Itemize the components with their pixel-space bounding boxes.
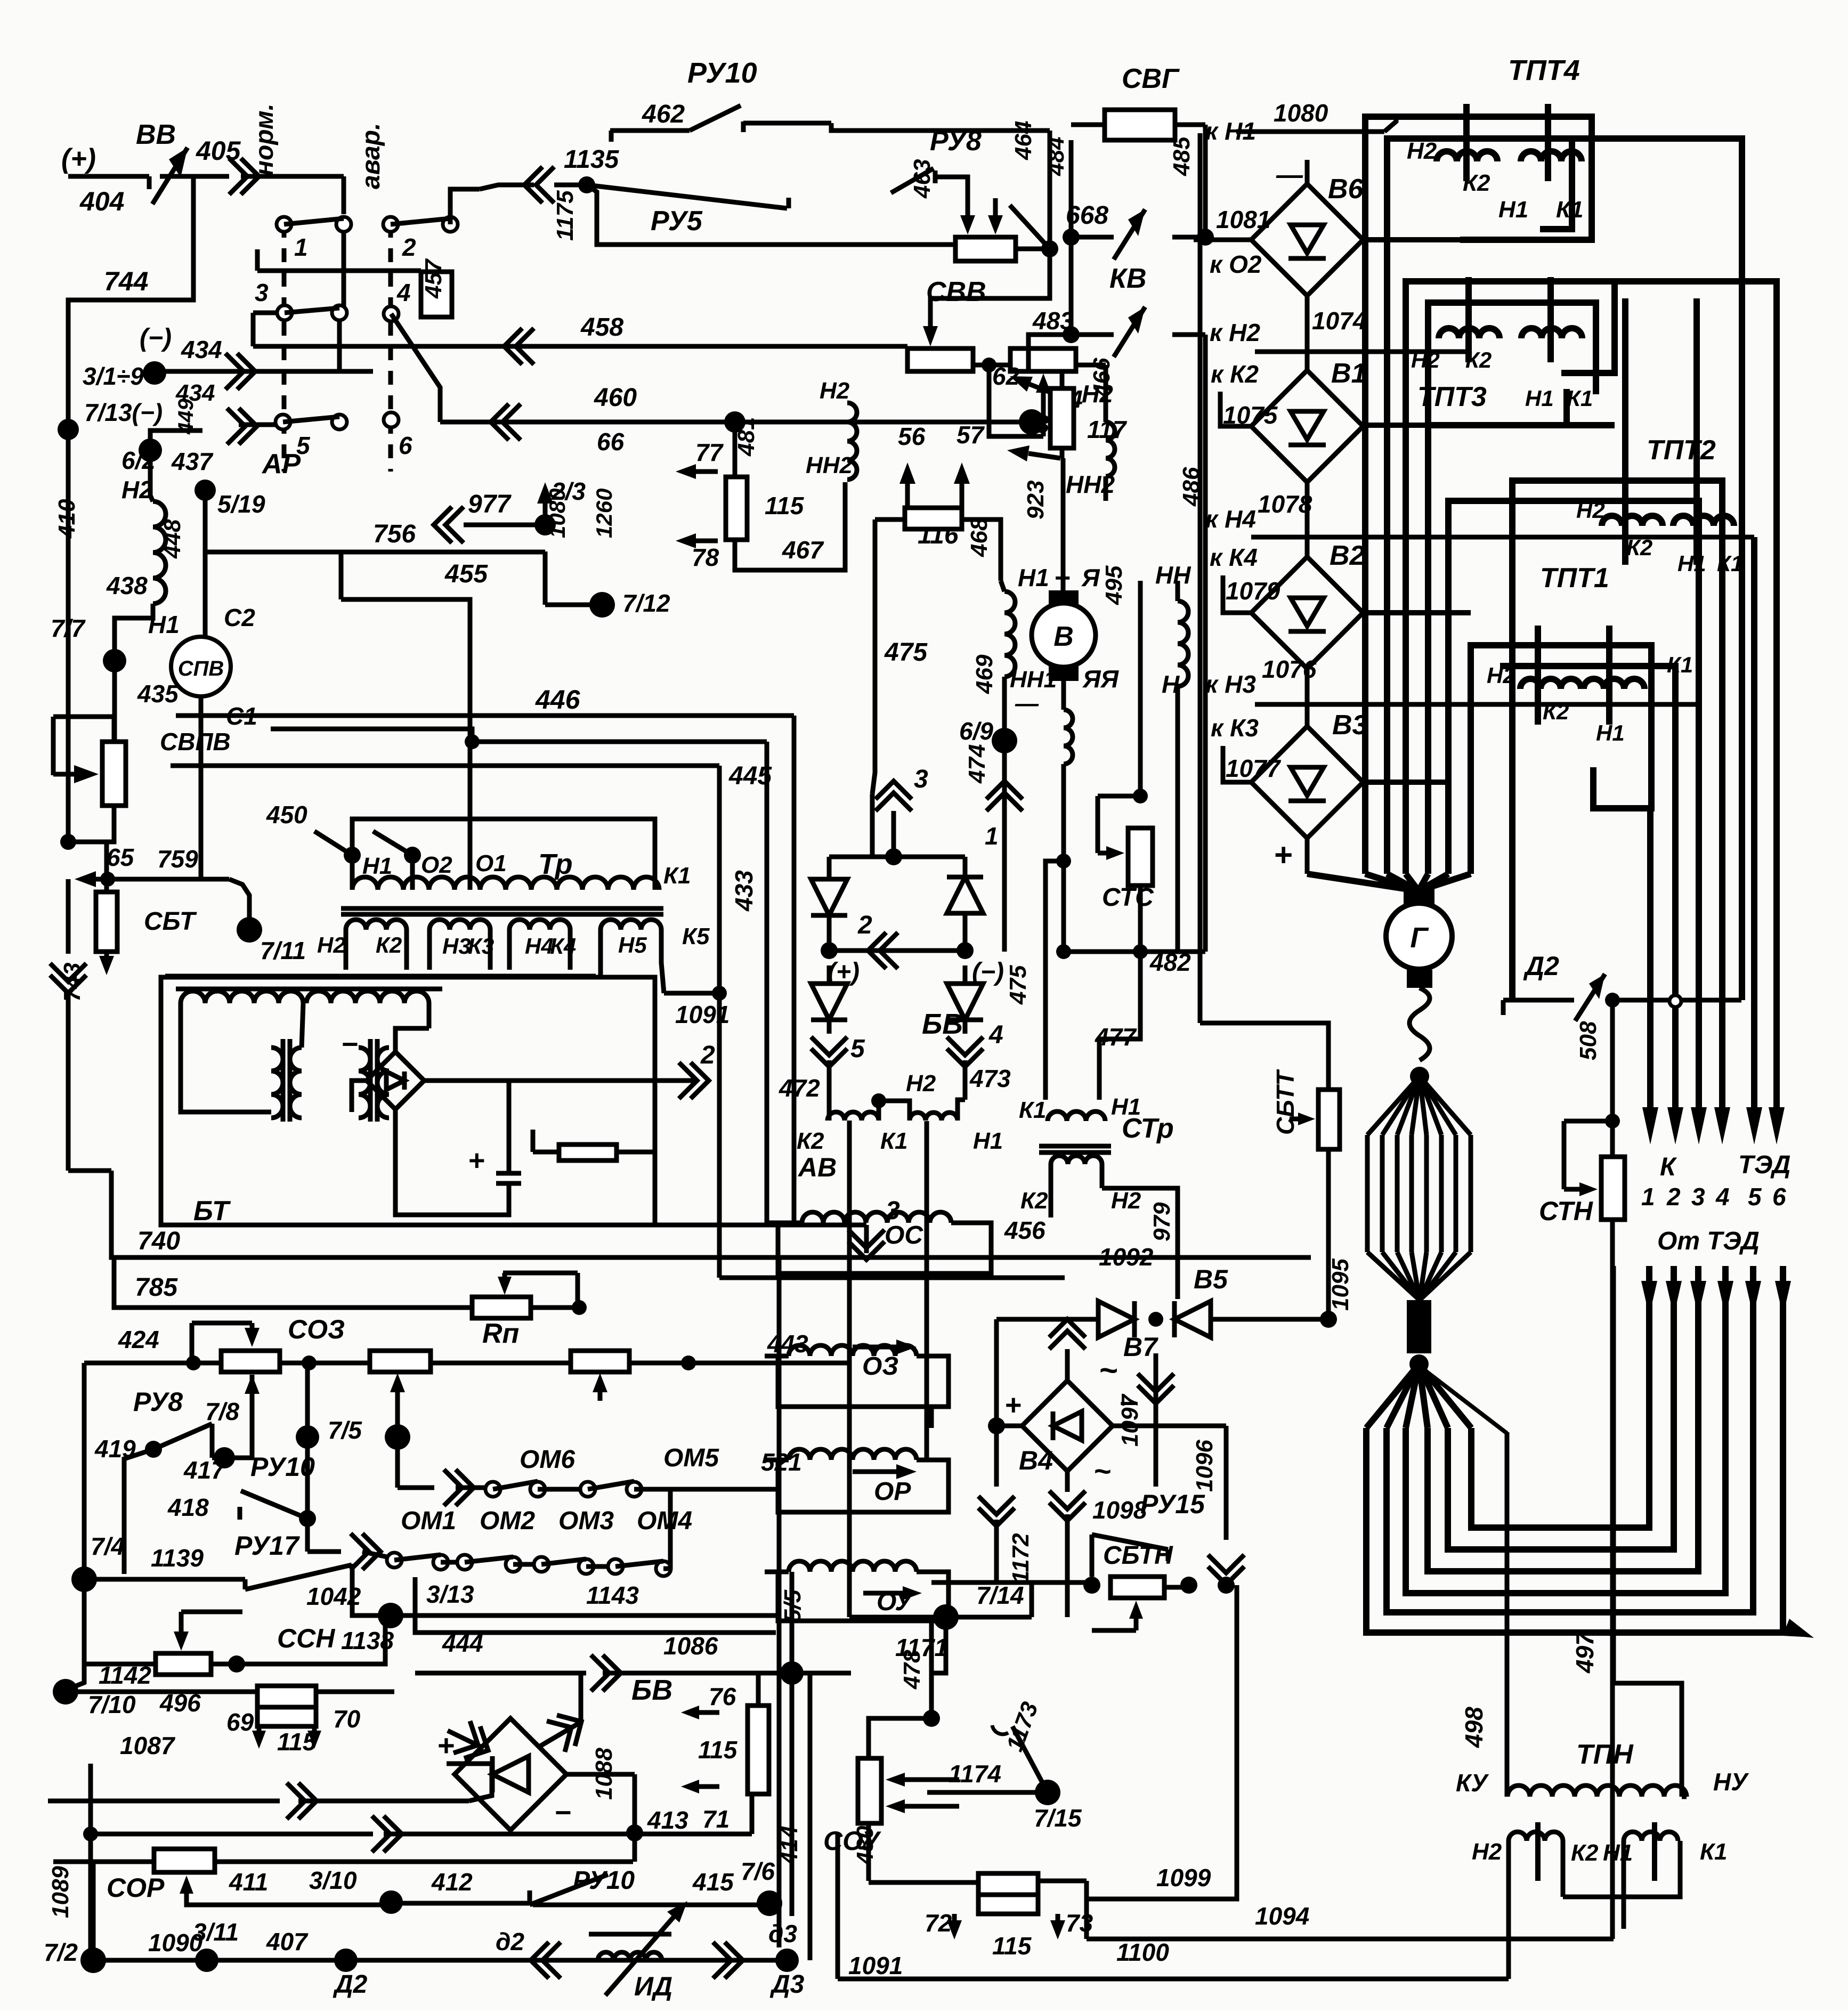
- svg-text:7/5: 7/5: [328, 1416, 362, 1444]
- svg-text:460: 460: [594, 384, 637, 412]
- svg-text:1096: 1096: [1192, 1440, 1218, 1492]
- resistor 117: [1050, 388, 1074, 448]
- svg-text:Я: Я: [1081, 564, 1100, 591]
- svg-text:498: 498: [1460, 1707, 1488, 1748]
- resistor 457: [421, 272, 452, 317]
- generator G terminal top: [1404, 889, 1434, 908]
- svg-text:Н2: Н2: [1411, 347, 1440, 372]
- svg-text:2: 2: [700, 1041, 715, 1069]
- svg-text:744: 744: [104, 266, 148, 296]
- svg-text:норм.: норм.: [250, 103, 279, 176]
- svg-text:2: 2: [857, 911, 872, 939]
- svg-text:К2: К2: [1463, 170, 1490, 196]
- TPT2 taps: [1622, 298, 1628, 565]
- svg-text:Н4: Н4: [525, 934, 554, 959]
- TPN secondary wiring: [1561, 1841, 1566, 1897]
- svg-text:КВ: КВ: [1109, 263, 1147, 294]
- svg-text:69: 69: [226, 1708, 254, 1736]
- svg-text:ТЭД: ТЭД: [1738, 1151, 1790, 1179]
- node 7/4: [71, 1566, 97, 1592]
- svg-text:1: 1: [985, 822, 999, 850]
- svg-text:ОМ1: ОМ1: [401, 1507, 456, 1535]
- svg-text:К2: К2: [1020, 1188, 1048, 1214]
- svg-text:474: 474: [964, 744, 990, 784]
- TPT4 coils: [1437, 151, 1497, 161]
- svg-text:473: 473: [969, 1065, 1011, 1092]
- svg-text:462: 462: [642, 100, 685, 128]
- svg-text:ССН: ССН: [277, 1624, 335, 1653]
- wire 668 to 458 resistor: [930, 249, 1050, 320]
- BT transformer 2 core: [368, 1039, 373, 1122]
- svg-text:От ТЭД: От ТЭД: [1657, 1227, 1760, 1255]
- svg-text:417: 417: [183, 1456, 226, 1484]
- svg-text:484: 484: [1043, 137, 1069, 176]
- svg-text:К1: К1: [1019, 1097, 1047, 1123]
- svg-text:к Н4: к Н4: [1205, 505, 1256, 533]
- svg-text:ОМ3: ОМ3: [558, 1507, 614, 1535]
- svg-text:3/10: 3/10: [309, 1866, 357, 1894]
- svg-text:472: 472: [779, 1074, 820, 1102]
- svg-text:ОЗ: ОЗ: [862, 1352, 898, 1381]
- svg-text:+: +: [1054, 563, 1070, 594]
- svg-text:418: 418: [167, 1493, 209, 1521]
- svg-text:к Н2: к Н2: [1210, 319, 1260, 346]
- svg-text:К1: К1: [880, 1128, 908, 1154]
- svg-text:БТ: БТ: [193, 1196, 231, 1227]
- svg-text:~: ~: [1099, 1352, 1117, 1388]
- svg-text:Н1: Н1: [1498, 197, 1528, 223]
- svg-text:К1: К1: [1700, 1839, 1728, 1865]
- svg-text:ОМ6: ОМ6: [520, 1446, 575, 1474]
- svg-text:53: 53: [1022, 410, 1050, 438]
- BV right chain diode: [963, 857, 968, 877]
- wire 743 chevron down: [50, 975, 86, 993]
- svg-text:1086: 1086: [663, 1632, 718, 1660]
- svg-text:4: 4: [988, 1021, 1003, 1049]
- svg-text:4: 4: [1715, 1183, 1730, 1211]
- svg-text:Н1: Н1: [1603, 1840, 1633, 1866]
- svg-text:7/4: 7/4: [91, 1532, 125, 1560]
- svg-text:к К2: к К2: [1211, 360, 1259, 388]
- svg-text:3: 3: [255, 279, 269, 306]
- svg-text:к О2: к О2: [1210, 250, 1262, 278]
- svg-text:6: 6: [399, 432, 412, 459]
- svg-text:412: 412: [431, 1868, 473, 1896]
- resistor 458-row 1: [907, 348, 973, 371]
- svg-text:7/15: 7/15: [1034, 1804, 1082, 1832]
- node 7/10 496: [53, 1679, 78, 1704]
- svg-text:7/6: 7/6: [741, 1857, 775, 1885]
- wire contact1 to contact3: [342, 232, 346, 313]
- switch AP normal column (dashed): [282, 224, 287, 472]
- svg-text:979: 979: [1149, 1202, 1175, 1241]
- svg-text:ОМ4: ОМ4: [637, 1507, 692, 1535]
- wire 457: [255, 249, 260, 271]
- svg-text:433: 433: [730, 870, 758, 912]
- svg-text:3: 3: [1691, 1183, 1705, 1211]
- svg-text:−: −: [341, 1028, 358, 1060]
- svg-text:К5: К5: [682, 923, 710, 949]
- svg-text:475: 475: [1005, 965, 1031, 1005]
- svg-text:СТН: СТН: [1539, 1196, 1593, 1226]
- node 7/5: [296, 1425, 319, 1449]
- svg-text:К2: К2: [376, 932, 402, 957]
- BT resistor: [559, 1145, 617, 1160]
- svg-text:1099: 1099: [1156, 1864, 1211, 1892]
- svg-text:К2: К2: [1626, 535, 1652, 560]
- svg-text:1074: 1074: [1312, 307, 1366, 335]
- svg-text:438: 438: [106, 572, 148, 599]
- svg-text:СОЗ: СОЗ: [288, 1314, 345, 1344]
- BT transformer 1 core: [281, 1039, 286, 1122]
- svg-text:НУ: НУ: [1713, 1768, 1749, 1796]
- wire from KV down: [1028, 335, 1071, 373]
- svg-text:1092: 1092: [1099, 1243, 1154, 1271]
- node 6/9: [992, 728, 1017, 753]
- resistor 115 77 78: [726, 477, 747, 540]
- BT capacitor: [496, 1171, 521, 1176]
- svg-text:Н5: Н5: [618, 932, 647, 957]
- wire 1135 to PY5: [480, 185, 534, 189]
- svg-text:АВ: АВ: [797, 1152, 837, 1182]
- TPT3 coils: [1439, 328, 1500, 338]
- svg-text:977: 977: [468, 490, 512, 518]
- Tr core: [341, 906, 663, 911]
- svg-text:—: —: [1015, 691, 1039, 717]
- svg-text:756: 756: [373, 520, 416, 548]
- svg-text:458: 458: [580, 313, 623, 342]
- svg-text:450: 450: [266, 801, 307, 829]
- wire to contact 1: [342, 176, 346, 214]
- wire 1092 horizontal: [719, 1276, 1065, 1280]
- bridge column 3: [1305, 669, 1310, 726]
- svg-text:435: 435: [137, 680, 179, 708]
- contact 6: [384, 412, 399, 427]
- wire 3 chevron down out of BT: [655, 1223, 866, 1228]
- svg-text:1087: 1087: [120, 1732, 176, 1759]
- svg-text:Н2: Н2: [1082, 380, 1113, 408]
- svg-text:К1: К1: [1717, 551, 1743, 576]
- svg-text:д2: д2: [496, 1928, 524, 1955]
- svg-text:Н1: Н1: [973, 1128, 1003, 1154]
- svg-text:7/2: 7/2: [44, 1938, 78, 1966]
- node 7/12: [589, 592, 615, 618]
- svg-text:Г: Г: [1410, 922, 1429, 954]
- BV left chain diode: [827, 857, 832, 879]
- svg-text:475: 475: [884, 638, 928, 667]
- U-loop group (generator to TED): [1366, 1364, 1419, 1428]
- svg-text:ИД: ИД: [634, 1971, 672, 2001]
- machine SPV circle: [171, 637, 231, 696]
- contact 4 blade to 460 wire: [391, 314, 440, 422]
- svg-text:480: 480: [852, 1825, 878, 1865]
- BT transformer 2 coils: [359, 1048, 370, 1118]
- svg-text:+: +: [1004, 1389, 1022, 1421]
- TPT1 coils: [1520, 679, 1581, 689]
- bottom bus 7/2 1090 407: [80, 1947, 106, 1973]
- svg-text:РУ5: РУ5: [651, 206, 703, 237]
- svg-text:ВВ: ВВ: [136, 119, 176, 150]
- wire 2 chevron out of BT: [424, 1078, 698, 1083]
- svg-text:73: 73: [1066, 1909, 1093, 1937]
- svg-text:+: +: [1274, 837, 1292, 873]
- wire 1080/1260 verticals: [543, 551, 548, 605]
- svg-text:к К3: к К3: [1211, 714, 1259, 742]
- svg-text:115: 115: [698, 1736, 738, 1764]
- svg-text:К2: К2: [797, 1128, 824, 1154]
- svg-text:ОМ5: ОМ5: [663, 1444, 719, 1472]
- svg-text:Н3: Н3: [442, 934, 471, 959]
- svg-text:д3: д3: [768, 1920, 797, 1947]
- TPT4 taps: [1463, 104, 1470, 181]
- svg-text:3/13: 3/13: [426, 1580, 474, 1608]
- svg-text:1080: 1080: [545, 489, 570, 538]
- resistor SOZ 1: [221, 1351, 280, 1372]
- mid vertical buses through windings: [847, 1121, 852, 1617]
- node 7/7: [103, 649, 126, 672]
- svg-text:НН1: НН1: [1010, 667, 1057, 693]
- svg-text:6/9: 6/9: [959, 717, 993, 745]
- svg-text:404: 404: [79, 186, 124, 216]
- svg-text:К2: К2: [1465, 347, 1492, 372]
- svg-text:ОР: ОР: [874, 1478, 911, 1506]
- resistor 69-115-70: [257, 1686, 316, 1707]
- machine V circle: [1049, 590, 1079, 606]
- wire 458: [251, 313, 256, 346]
- svg-text:468: 468: [966, 517, 992, 557]
- bottom mid horizontal 2970: [931, 1580, 1092, 1585]
- svg-text:Н2: Н2: [906, 1070, 936, 1097]
- resistor SOZ 2: [280, 1361, 370, 1366]
- wire 435 from 7/7 down: [112, 661, 117, 742]
- svg-text:743: 743: [59, 963, 85, 1002]
- svg-text:1081: 1081: [1216, 206, 1270, 233]
- contact 2: [383, 217, 398, 232]
- wire 977 2/3 arrow: [434, 507, 452, 543]
- svg-text:Н2: Н2: [317, 932, 346, 957]
- svg-text:456: 456: [1004, 1216, 1045, 1244]
- svg-text:−: −: [554, 1797, 571, 1829]
- svg-text:БВ: БВ: [922, 1008, 963, 1040]
- svg-text:к Н3: к Н3: [1205, 670, 1256, 698]
- svg-text:2: 2: [402, 233, 416, 261]
- svg-text:485: 485: [1169, 136, 1195, 176]
- svg-text:785: 785: [135, 1273, 178, 1302]
- svg-text:70: 70: [333, 1705, 361, 1733]
- svg-text:+: +: [468, 1145, 485, 1176]
- svg-text:1171: 1171: [895, 1634, 948, 1661]
- svg-text:К1: К1: [1667, 652, 1693, 677]
- svg-text:1: 1: [1641, 1183, 1655, 1211]
- svg-text:О2: О2: [421, 852, 452, 878]
- bridge B4: [1022, 1381, 1113, 1471]
- svg-text:4: 4: [396, 279, 411, 306]
- inductor ID: [598, 1952, 662, 1960]
- BT bridge: [367, 1052, 424, 1109]
- svg-text:(−): (−): [140, 324, 172, 352]
- svg-text:СОР: СОР: [107, 1873, 165, 1903]
- resistor SVV: [955, 237, 1016, 261]
- svg-text:1094: 1094: [1255, 1902, 1309, 1930]
- node 5/4 to resistor 115 area: [724, 411, 745, 433]
- svg-text:С2: С2: [224, 604, 255, 631]
- svg-text:759: 759: [157, 845, 198, 873]
- TPT1 taps: [1535, 626, 1541, 725]
- bridge B6 top wire: [1305, 160, 1310, 184]
- BT transformer 2 primary: [306, 991, 429, 1003]
- svg-text:3: 3: [914, 765, 928, 793]
- second chevron wire: [91, 1832, 373, 1837]
- svg-text:1080: 1080: [1274, 99, 1328, 127]
- svg-text:434: 434: [181, 336, 222, 363]
- svg-text:446: 446: [535, 685, 581, 715]
- svg-text:СВПВ: СВПВ: [160, 728, 231, 756]
- resistor SOZ 3: [431, 1361, 571, 1366]
- BT transformer 1 primary: [181, 991, 303, 1003]
- svg-text:463: 463: [909, 159, 935, 199]
- svg-text:СБТТ: СБТТ: [1271, 1069, 1299, 1135]
- svg-text:В1: В1: [1331, 358, 1366, 389]
- secondary bottom bus: [165, 974, 596, 979]
- svg-text:414: 414: [776, 1826, 803, 1865]
- left vertical bus of bridge column: [1198, 133, 1203, 1023]
- cage bottom block: [1407, 1300, 1431, 1353]
- rheostat SVPV: [102, 742, 126, 806]
- arrows 56 57: [905, 484, 910, 506]
- svg-text:Д2: Д2: [1523, 951, 1559, 981]
- svg-text:Н1: Н1: [1525, 386, 1554, 411]
- svg-text:72: 72: [925, 1909, 952, 1937]
- svg-text:740: 740: [137, 1227, 180, 1255]
- svg-text:7/14: 7/14: [976, 1581, 1024, 1609]
- svg-text:464: 464: [1010, 121, 1036, 160]
- generator squiggle coil: [1409, 988, 1430, 1060]
- svg-text:К1: К1: [1556, 197, 1584, 223]
- BV left chain diode 2: [811, 984, 847, 1020]
- svg-text:495: 495: [1101, 565, 1127, 605]
- BT top bar: [176, 987, 442, 992]
- bottom right bus wires: [838, 1977, 1509, 1982]
- svg-text:СТр: СТр: [1122, 1113, 1174, 1144]
- svg-text:3/11: 3/11: [193, 1918, 239, 1946]
- svg-text:ЯЯ: ЯЯ: [1082, 665, 1120, 693]
- KV flag 2: [1071, 332, 1114, 337]
- svg-text:АР: АР: [261, 449, 301, 480]
- svg-text:923: 923: [1023, 481, 1049, 520]
- svg-text:ОМ2: ОМ2: [480, 1507, 535, 1535]
- switch AP avar column (dashed): [388, 224, 393, 472]
- svg-text:В4: В4: [1019, 1446, 1053, 1475]
- TPT3 taps: [1465, 277, 1472, 362]
- svg-text:467: 467: [782, 536, 824, 564]
- svg-text:СВГ: СВГ: [1122, 63, 1180, 94]
- svg-text:1: 1: [294, 233, 308, 261]
- node 7/14: [933, 1604, 959, 1630]
- svg-text:РУ8: РУ8: [930, 126, 982, 157]
- svg-text:Н2: Н2: [1487, 663, 1515, 688]
- svg-text:Н2: Н2: [1111, 1188, 1141, 1214]
- svg-text:К2: К2: [1571, 1840, 1599, 1866]
- svg-text:1135: 1135: [564, 145, 620, 174]
- svg-text:57: 57: [957, 421, 985, 449]
- contact 4: [384, 306, 399, 321]
- TPN taps: [1535, 1822, 1541, 1881]
- svg-text:407: 407: [266, 1928, 309, 1955]
- svg-text:5/19: 5/19: [217, 490, 265, 518]
- svg-text:К1: К1: [1567, 386, 1593, 411]
- svg-text:РУ10: РУ10: [573, 1866, 635, 1895]
- svg-text:3/1÷9: 3/1÷9: [83, 362, 144, 390]
- svg-text:7/8: 7/8: [205, 1398, 239, 1425]
- bundle left verticals from TPT down to funnel: [1362, 341, 1368, 874]
- svg-text:56: 56: [898, 423, 926, 450]
- svg-text:РУ10: РУ10: [687, 57, 757, 89]
- svg-text:115: 115: [992, 1932, 1032, 1960]
- wire 53 arrow 117: [1028, 453, 1060, 458]
- svg-text:1097: 1097: [1117, 1393, 1143, 1447]
- svg-text:Н2: Н2: [1472, 1839, 1502, 1865]
- svg-text:КУ: КУ: [1456, 1769, 1489, 1797]
- svg-text:—: —: [1276, 160, 1303, 190]
- svg-text:469: 469: [971, 654, 998, 694]
- svg-text:РУ8: РУ8: [133, 1387, 183, 1417]
- wire 3 chevron up: [876, 781, 912, 799]
- svg-text:К: К: [1660, 1153, 1677, 1181]
- svg-text:СБТН: СБТН: [1103, 1541, 1173, 1570]
- svg-text:411: 411: [229, 1868, 268, 1896]
- svg-text:Н2: Н2: [1576, 498, 1605, 523]
- svg-text:437: 437: [171, 448, 214, 475]
- svg-text:О1: О1: [475, 850, 507, 876]
- motor V lower coil: [1061, 681, 1066, 710]
- Tr transformer top box: [352, 819, 655, 890]
- funnel to cage: [1410, 1067, 1429, 1086]
- svg-text:1089: 1089: [47, 1866, 74, 1918]
- svg-text:1139: 1139: [151, 1544, 204, 1572]
- svg-text:415: 415: [692, 1868, 734, 1896]
- svg-text:к К4: к К4: [1210, 543, 1258, 571]
- contact 3: [277, 305, 292, 320]
- svg-text:Н2: Н2: [121, 476, 153, 504]
- generator G circle: [1386, 903, 1452, 969]
- arrows into SVV: [966, 198, 970, 215]
- BV right chain diode 2: [947, 984, 983, 1020]
- svg-text:1091: 1091: [848, 1952, 903, 1979]
- KV flag 1: [1071, 235, 1114, 240]
- node 5/19: [194, 480, 216, 501]
- svg-text:Rп: Rп: [482, 1318, 519, 1349]
- svg-text:71: 71: [702, 1805, 730, 1833]
- bridge column 2: [1305, 482, 1310, 557]
- svg-text:76: 76: [709, 1683, 736, 1710]
- svg-text:Н2: Н2: [820, 378, 850, 404]
- svg-text:(+): (+): [61, 143, 96, 174]
- svg-text:В2: В2: [1330, 540, 1365, 571]
- svg-text:БВ: БВ: [631, 1674, 672, 1706]
- resistor 466 row: [982, 358, 996, 372]
- svg-text:РУ15: РУ15: [1140, 1489, 1205, 1519]
- Tr taps: [344, 847, 361, 864]
- svg-text:1142: 1142: [99, 1661, 151, 1689]
- svg-text:77: 77: [695, 439, 724, 466]
- svg-text:7/11: 7/11: [260, 937, 306, 964]
- svg-text:7/10: 7/10: [88, 1691, 136, 1718]
- contact 1: [277, 217, 291, 232]
- wire 443: [629, 1361, 851, 1366]
- wire 411 3/10 412 PY10: [184, 1894, 189, 1900]
- svg-text:1078: 1078: [1258, 490, 1312, 518]
- svg-text:авар.: авар.: [357, 123, 385, 189]
